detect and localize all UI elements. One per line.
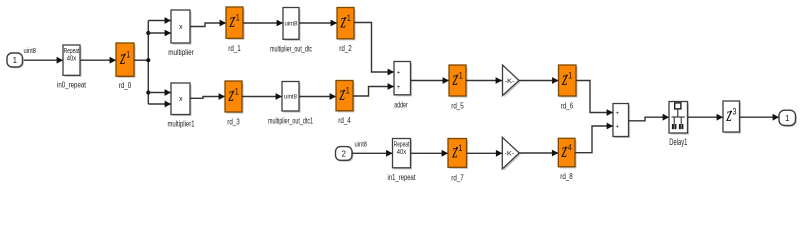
svg-text:4: 4 [568, 143, 572, 153]
block adder (sum) [394, 62, 412, 97]
block multiplier_out_dtc (uint8 conversion) [283, 8, 301, 41]
svg-text:2: 2 [341, 149, 346, 158]
svg-text:+: + [397, 70, 401, 76]
wire branch vertical [147, 21, 149, 105]
wire rd_5 to gain K [466, 77, 502, 84]
label rd_4 [338, 115, 351, 125]
label rd_7 [451, 173, 464, 183]
svg-text:z: z [228, 82, 234, 105]
svg-text:rd_5: rd_5 [451, 100, 464, 110]
label rd_1 [228, 43, 241, 53]
svg-text:multiplier: multiplier [168, 47, 194, 57]
block rd_1 (delay z-1) [226, 7, 245, 40]
block z-3 (delay) [723, 101, 741, 134]
svg-text:1: 1 [346, 86, 350, 96]
wire rd_4 to adder in2 [353, 83, 394, 96]
output port 1 [779, 110, 797, 127]
svg-text:+: + [397, 85, 401, 91]
svg-text:rd_2: rd_2 [339, 43, 352, 53]
svg-text:uint8: uint8 [284, 94, 297, 101]
svg-text:rd_8: rd_8 [560, 171, 573, 181]
wire multiplier_out_dtc to rd_2 [299, 20, 337, 27]
svg-text:z: z [229, 8, 235, 31]
signal label uint8 (bottom) [355, 140, 368, 149]
block rd_0 (delay z-1) [116, 43, 136, 78]
wire in1_repeat to rd_7 [411, 150, 449, 157]
wire rd_2 to adder in1 [354, 23, 394, 76]
block multiplier (product) [171, 10, 192, 45]
svg-text:1: 1 [13, 56, 18, 65]
svg-text:+: + [616, 111, 620, 117]
svg-text:z: z [561, 138, 567, 161]
block Delay1 [669, 102, 689, 135]
block rd_3 (delay z-1) [225, 81, 244, 114]
signal label uint8 (top) [24, 46, 37, 55]
label multiplier1 [168, 119, 195, 129]
label rd_0 [119, 80, 132, 90]
block multiplier1 (product) [171, 83, 192, 116]
svg-text:uint8: uint8 [285, 21, 298, 28]
block in0_repeat (Repeat 40x) [63, 45, 82, 77]
label multiplier_out_dtc1 [268, 115, 313, 125]
wire rd_8 to sum2 in2 [575, 123, 613, 153]
svg-text:z: z [452, 66, 458, 89]
svg-text:1: 1 [235, 87, 239, 97]
svg-text:1: 1 [459, 71, 463, 81]
wire gain to rd_6 [519, 77, 559, 84]
wire in0_repeat to rd_0 [80, 57, 116, 64]
block rd_6 (delay z-1) [559, 65, 578, 98]
wire multiplier_out_dtc1 to rd_4 [299, 93, 336, 100]
block rd_4 (delay z-1) [336, 81, 355, 113]
svg-text:1: 1 [126, 50, 130, 60]
svg-text:z: z [451, 139, 457, 162]
junction node to multiplier in2 [146, 31, 150, 35]
wire to multiplier in1 [148, 17, 171, 24]
wire to multiplier1 in1 [148, 89, 171, 96]
input port 1 [7, 53, 24, 68]
label rd_5 [451, 100, 464, 110]
svg-text:z: z [340, 9, 346, 32]
wire rd_7 to gain1 K [467, 150, 503, 157]
svg-text:rd_0: rd_0 [119, 80, 132, 90]
svg-text:Delay1: Delay1 [669, 137, 687, 147]
svg-text:3: 3 [733, 107, 737, 117]
gain1 -K- (triangle) [502, 137, 521, 170]
svg-text:1: 1 [568, 71, 572, 81]
wire multiplier to rd_1 [190, 20, 226, 27]
wire port2 to in1_repeat [352, 150, 393, 157]
label adder [394, 99, 408, 109]
svg-text:z: z [119, 45, 125, 68]
svg-text:uint8: uint8 [24, 46, 37, 55]
svg-text:multiplier1: multiplier1 [168, 119, 195, 129]
svg-text:40x: 40x [397, 147, 407, 156]
wire gain1 to rd_8 [519, 150, 558, 157]
svg-text:in1_repeat: in1_repeat [388, 172, 416, 182]
input port 2 [336, 147, 354, 162]
svg-text:rd_3: rd_3 [227, 116, 240, 126]
label Delay1 [669, 137, 687, 147]
wire to multiplier in2 [148, 30, 171, 37]
svg-text:rd_4: rd_4 [338, 115, 351, 125]
wire rd_3 to multiplier_out_dtc1 [242, 93, 282, 100]
label rd_3 [227, 116, 240, 126]
svg-text:z: z [339, 81, 345, 104]
svg-text:rd_7: rd_7 [451, 173, 464, 183]
svg-text:x: x [179, 96, 183, 103]
svg-text:rd_6: rd_6 [561, 100, 574, 110]
svg-text:adder: adder [394, 99, 408, 109]
wire rd_6 to sum2 in1 [576, 81, 613, 116]
wire sum2 to Delay1 [629, 114, 670, 121]
label in0_repeat [57, 80, 86, 90]
svg-text:multiplier_out_dtc1: multiplier_out_dtc1 [268, 115, 313, 125]
block rd_5 (delay z-1) [449, 65, 468, 98]
block rd_2 (delay z-1) [337, 8, 356, 41]
wire port1 to in0_repeat [24, 57, 63, 64]
svg-text:multiplier_out_dtc: multiplier_out_dtc [270, 44, 312, 54]
svg-text:rd_1: rd_1 [228, 43, 241, 53]
svg-text:uint8: uint8 [355, 140, 368, 149]
wire Delay1 to z-3 block [688, 114, 724, 121]
svg-text:x: x [179, 24, 183, 31]
junction node main [146, 58, 150, 62]
label rd_2 [339, 43, 352, 53]
wire rd_0 to branch node [134, 59, 148, 61]
svg-text:40x: 40x [67, 54, 77, 63]
svg-text:1: 1 [236, 13, 240, 23]
label rd_6 [561, 100, 574, 110]
svg-text:-K-: -K- [505, 78, 515, 85]
wire to multiplier1 in2 [148, 101, 171, 108]
gain -K- (triangle) [503, 65, 521, 97]
svg-text:1: 1 [785, 114, 790, 123]
block multiplier_out_dtc1 (uint8 conversion) [282, 82, 301, 113]
block rd_8 (delay z-4) [558, 138, 576, 168]
svg-text:+: + [616, 124, 620, 130]
label multiplier [168, 47, 194, 57]
label multiplier_out_dtc [270, 44, 312, 54]
wire z-3 to output port [740, 114, 780, 121]
wire adder to rd_5 [411, 77, 450, 84]
svg-text:in0_repeat: in0_repeat [57, 80, 86, 90]
label in1_repeat [388, 172, 416, 182]
label rd_8 [560, 171, 573, 181]
svg-text:1: 1 [347, 13, 351, 23]
block in1_repeat (Repeat 40x) [393, 139, 413, 170]
block sum2 [613, 104, 630, 139]
wire rd_1 to multiplier_out_dtc [243, 20, 283, 27]
junction node to multiplier1 in1 [146, 90, 150, 94]
svg-text:1: 1 [458, 143, 462, 153]
block rd_7 (delay z-1) [448, 139, 468, 169]
wire multiplier1 to rd_3 [190, 93, 225, 100]
svg-text:-K-: -K- [504, 151, 514, 158]
svg-text:z: z [726, 102, 732, 125]
svg-text:z: z [561, 66, 567, 89]
